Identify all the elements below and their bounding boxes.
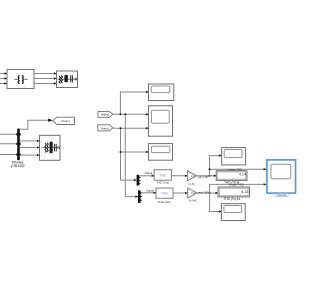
branch to big scope input1 [210,168,267,170]
bus input wire a [0,133,18,135]
svg-text:THD (Ia)1: THD (Ia)1 [158,200,171,204]
svg-text:THD (Ua): THD (Ua) [156,180,169,184]
svg-text:0.14: 0.14 [239,173,246,177]
svg-text:THD: THD [159,174,166,178]
Scope6 (selected, blue) [267,160,296,197]
From tag [Iabc] [98,125,113,131]
wires transformer to load block [34,73,57,75]
svg-text:100: 100 [191,175,196,178]
winding leads [15,78,28,80]
svg-text:THD (%) A1: THD (%) A1 [223,197,240,201]
Display1 [216,171,247,185]
wire THD2 to Gain2 [173,192,188,194]
THD2 block [156,188,173,204]
wire Gain2 to Display2 [197,192,218,194]
branch down (Iabc) to scope3 and demux1 [121,128,137,180]
transformer T1 block [7,70,34,89]
RLC load block B2 [57,71,78,88]
bus input wire b [0,143,18,145]
branch to Scope3 [121,151,149,153]
svg-text:In %: In % [188,182,194,186]
wire bus to Goto tag [20,120,51,129]
bus junction blobs [16,133,20,155]
Scope4 [222,148,246,165]
svg-text:Signal: Signal [146,188,154,192]
svg-text:Signal: Signal [145,171,153,175]
Demux2 [138,190,142,203]
three-phase RLC block B3 [40,135,61,160]
junction dot [119,113,121,115]
Gain1 [187,171,196,186]
svg-text:(735 kV)2: (735 kV)2 [11,164,25,168]
svg-text:[Vabc]: [Vabc] [101,113,109,117]
bus input wire c [0,154,18,156]
branch up to Scope1 [120,92,148,114]
Scope5 [221,204,245,221]
wire demux2 to THD2 [141,192,156,194]
secondary winding [22,76,23,84]
Scope1 [149,84,174,101]
primary winding [18,76,19,84]
wire From1 to Scope2 input1 [113,113,149,115]
svg-text:6.13: 6.13 [241,190,248,194]
svg-text:In %1: In %1 [189,198,197,202]
From tag [Vabc] [98,111,113,117]
svg-text:ratio THD: ratio THD [198,176,209,179]
wire THD1 to Gain1 [171,175,187,177]
Gain2 [188,188,197,202]
branch up to Scope4 and Scope6 input1 [210,156,222,176]
wire From2 to Scope2 input2 [113,127,149,129]
svg-text:[Iabc]: [Iabc] [101,126,109,130]
junction on gain1 wire [209,175,211,177]
wires bus to three-phase block B3 [20,140,40,142]
wire Gain1 to Display1 [197,175,217,177]
arrowheads into transformer [5,72,8,84]
Display2 [218,187,250,201]
Goto tag [Vabc] [53,117,75,124]
branch down (Vabc) to demux2 [125,114,138,196]
svg-text:voltage THD1: voltage THD1 [229,183,245,186]
bus bar (Primary 735 kV) [17,129,20,161]
wire into transformer c [0,83,7,85]
Scope2 [149,106,173,136]
branch down to Scope5 [210,193,222,212]
branch up to Scope6 input2 [210,184,267,193]
Scope3 [149,144,173,161]
svg-text:THD: THD [161,192,168,196]
arrowhead into Goto tag [48,119,53,122]
Demux1 [137,175,141,186]
svg-text:100: 100 [191,192,196,195]
THD1 block [154,170,171,185]
wire demux1 to THD1 [140,175,155,177]
svg-text:[Vsec]: [Vsec] [61,119,70,123]
wire into transformer a [0,73,7,75]
svg-text:Scope4: Scope4 [277,193,286,197]
wire into transformer b [0,78,7,80]
